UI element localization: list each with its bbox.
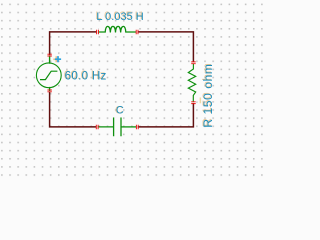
svg-text:R 150 ohm: R 150 ohm (201, 64, 215, 128)
svg-text:L 0.035 H: L 0.035 H (96, 11, 143, 23)
svg-text:60.0 Hz: 60.0 Hz (65, 70, 107, 83)
svg-text:C: C (116, 105, 124, 117)
